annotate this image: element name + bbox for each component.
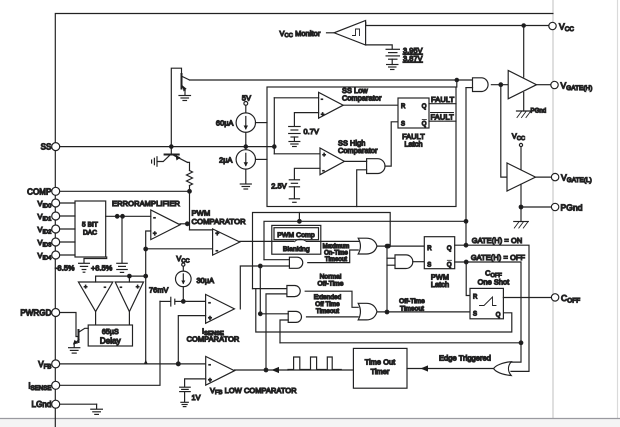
node blanking feedback junction (298, 220, 302, 224)
resistor R1 (187, 171, 193, 186)
pin VID4 (52, 251, 60, 259)
capacitor 76mV offset (174, 299, 176, 304)
wire monitor label stub (327, 32, 335, 34)
wire ISENSE comp output to AND1 (240, 266, 289, 309)
svg-text:Timer: Timer (371, 367, 390, 376)
wire 2uA stub to SS box (256, 158, 268, 160)
OR gate extended off-time (358, 303, 377, 320)
op-amp error amplifier (151, 210, 180, 240)
pin VID3 (52, 238, 60, 246)
ground under 1V (181, 401, 188, 403)
wire one-shot return rail (256, 289, 512, 332)
pin VCC (549, 22, 556, 29)
node AND3 input junction (259, 312, 263, 316)
svg-text:VID2: VID2 (37, 225, 51, 235)
node VFB junction (176, 362, 180, 366)
svg-text:-: - (209, 363, 211, 369)
wire AND-enable riser (465, 88, 467, 246)
page bottom gray rule (0, 418, 620, 420)
wire AND2 output to ext OR (305, 291, 358, 307)
wire SS High output (344, 160, 366, 162)
svg-text:ERRORAMPLIFIER: ERRORAMPLIFIER (112, 199, 181, 208)
svg-text:-: - (323, 168, 325, 174)
svg-text:-: - (216, 249, 218, 255)
svg-text:-: - (120, 285, 122, 291)
battery 3.95V/3.87V reference (386, 48, 399, 50)
wire COMP pin (60, 190, 190, 192)
ground under 3.95V reference (387, 64, 398, 66)
wire comparator outputs into delay (95, 312, 97, 325)
svg-text:+: + (84, 285, 87, 291)
AND gate gate-drive (473, 78, 489, 92)
svg-text:VID0: VID0 (37, 199, 51, 209)
svg-text:60µA: 60µA (216, 119, 234, 128)
page bottom strip tint (0, 419, 620, 427)
ground under Q3 (69, 347, 80, 349)
wire VGATE(H) driver input to VGATE(L) driver (501, 85, 507, 177)
svg-text:VGATE(L): VGATE(L) (561, 173, 592, 185)
page table vertical gray line (552, 0, 554, 427)
wire SS High ref input (294, 168, 320, 179)
svg-text:2µA: 2µA (219, 155, 232, 164)
wire VFB low comparator output to timer (235, 369, 354, 371)
wire SS Low output to FAULT latch R (343, 104, 398, 106)
node driver input junction (499, 83, 503, 87)
wire GATE(H)=ON from latch Q (455, 245, 529, 371)
pin PWRGD (52, 309, 60, 317)
op-amp VFB low comparator (206, 356, 235, 385)
wire rail to AND2 top input (253, 288, 287, 290)
svg-text:VCC Monitor: VCC Monitor (280, 29, 321, 39)
ground under 2uA (240, 183, 251, 185)
svg-text:3.87V: 3.87V (403, 54, 423, 63)
wire AND second input from box bottom (357, 170, 367, 207)
svg-text:COMPARATOR: COMPARATOR (192, 217, 247, 226)
svg-text:Blanking: Blanking (283, 246, 310, 253)
DAC box 5 BIT DAC (75, 201, 106, 257)
wire edge gate to timer with arrow (407, 368, 494, 370)
wire VID3 to DAC (60, 241, 75, 243)
AND gate 2 (normal off-time) (287, 286, 300, 297)
svg-text:VID4: VID4 (37, 251, 51, 261)
wire FAULT latch Qbar output (429, 120, 456, 122)
wire SS Low ref input (294, 113, 318, 126)
svg-text:Latch: Latch (404, 140, 422, 149)
wire VCC into VGATE(H) driver (523, 26, 525, 78)
wire driver to PGnd chassis (523, 93, 525, 112)
transistor Q3 base bar (78, 330, 80, 342)
pin VID2 (52, 225, 60, 233)
svg-text:S: S (427, 262, 431, 268)
wire stub to SS box corner (456, 80, 458, 87)
transistor Q3 emitter with arrow (74, 340, 79, 345)
svg-text:5 BIT: 5 BIT (82, 222, 98, 229)
wire resistor to COMP node (189, 186, 191, 192)
wire VGATE(L) driver to pin (536, 176, 552, 178)
wire AND3 bottom input from off rail (280, 320, 288, 343)
svg-text:Q: Q (422, 104, 427, 110)
wire PWRGD pin to transistor (60, 313, 78, 337)
wire 30uA to ISENSE comp input (182, 287, 184, 302)
svg-text:+: + (321, 112, 324, 118)
page right edge gray line (617, 0, 619, 427)
SS section box (267, 87, 456, 207)
wire SS rail (60, 146, 275, 148)
wire VID0 to DAC (60, 202, 75, 204)
svg-text:-: - (104, 285, 106, 291)
pin ISENSE (52, 381, 60, 389)
svg-text:Q: Q (496, 313, 501, 319)
svg-text:COMPARATOR: COMPARATOR (187, 335, 240, 344)
waveform pulse glyph (288, 357, 341, 370)
buffer VGATE(H) driver (508, 71, 536, 99)
node VFB bus to PWM comp junction (144, 247, 148, 251)
svg-text:Q: Q (447, 246, 452, 252)
node off-time rail end junction (519, 341, 523, 345)
op-amp PWM comparator (213, 229, 240, 255)
svg-text:R: R (401, 104, 406, 110)
hysteresis glyph inside monitor (353, 29, 360, 36)
node VFB low output junction (264, 368, 268, 372)
node gate-on junction (464, 243, 468, 247)
node COMP junction (188, 190, 192, 194)
svg-text:LGnd: LGnd (32, 400, 52, 409)
svg-text:65µS: 65µS (102, 329, 119, 336)
wire VCC rail to pin (366, 23, 549, 26)
wire VID1 to DAC (60, 215, 75, 217)
svg-text:S: S (401, 122, 405, 128)
node S-AND feed junction (385, 244, 389, 248)
wire AND3 output to ext OR (307, 316, 359, 318)
transistor Q2 base from SS rail (170, 147, 172, 155)
wire ISENSE riser (60, 301, 160, 385)
svg-text:FAULT: FAULT (431, 95, 455, 104)
arrow on VFB low output (272, 367, 280, 373)
wire latch-Q feedback rail (264, 221, 466, 259)
wire SS to SS Low + input (274, 97, 318, 99)
pin COFF (551, 294, 558, 301)
buffer VGATE(L) driver (507, 163, 536, 191)
node VFB bus meets VFB pin wire (144, 360, 148, 365)
svg-text:Time Out: Time Out (365, 358, 396, 367)
pin COMP (52, 187, 60, 195)
wire 5V to 60uA source (245, 105, 247, 113)
svg-text:+: + (153, 232, 157, 238)
wire 1V ref to VFB low comparator (185, 379, 206, 387)
op-amp SS High comparator (320, 148, 344, 175)
svg-text:Normal: Normal (320, 274, 342, 281)
wire 2uA to ground (245, 169, 247, 183)
svg-text:VFB: VFB (38, 360, 51, 371)
svg-text:One Shot: One Shot (478, 278, 510, 287)
wire SS riser to comparators (273, 98, 275, 154)
svg-text:PGnd: PGnd (561, 203, 583, 213)
wire one-shot to COFF pin (503, 297, 551, 299)
current source 2uA (236, 150, 255, 169)
svg-text:Off-Time: Off-Time (399, 298, 425, 305)
wire stub rail to blanking rail (298, 213, 300, 222)
svg-text:Extended: Extended (314, 294, 342, 301)
box PWM Comp Blanking (272, 225, 321, 254)
op-amp ISENSE comparator (206, 294, 235, 323)
wire VCC to 30uA (182, 266, 184, 271)
pin VID1 (52, 212, 60, 220)
svg-text:Latch: Latch (431, 280, 449, 289)
battery 1V (180, 386, 191, 388)
node VCC rail junction (522, 24, 525, 27)
svg-text:0.7V: 0.7V (304, 127, 319, 136)
wire -8.5% tap (84, 257, 107, 263)
transistor Q2 left leg to capacitor (158, 156, 170, 162)
svg-text:FAULT: FAULT (431, 113, 455, 122)
svg-text:-: - (321, 97, 323, 103)
wire VFB to ISENSE comp + input (178, 316, 205, 364)
current source 30uA (176, 271, 192, 287)
svg-text:PGnd: PGnd (531, 109, 547, 115)
ground under 0.7V (289, 141, 300, 143)
svg-text:Edge Triggered: Edge Triggered (439, 353, 491, 362)
wire AND1 output to OR input (308, 250, 358, 263)
comparator window left (down triangle) (78, 282, 112, 312)
node rail to OR output junction (387, 244, 391, 248)
transistor Q1 collector (182, 77, 189, 81)
wire Q2 to resistor (188, 162, 190, 170)
pin VFB (52, 360, 60, 368)
wire SS to SS High input (274, 153, 320, 155)
svg-text:+: + (136, 285, 139, 291)
svg-text:+: + (323, 153, 326, 159)
svg-text:Q: Q (447, 262, 452, 268)
svg-text:VID3: VID3 (37, 238, 51, 248)
wire 60uA stub to SS box (256, 122, 268, 124)
wire offset node to comparator (183, 300, 205, 302)
IC outline top border (55, 14, 553, 427)
transistor Q1 emitter with arrow (182, 86, 185, 91)
wire monitor reference (366, 45, 393, 49)
svg-text:Maximum: Maximum (323, 244, 350, 250)
node SS riser junction (273, 145, 276, 148)
wire window comparators to VFB bus (95, 276, 97, 282)
pin VID0 (52, 199, 60, 207)
pin SS (52, 143, 60, 151)
wire error amp out to PWM comparator input (190, 229, 213, 231)
pin VGATE(L) (551, 173, 558, 180)
node VCC terminal VGATE(L) (519, 143, 522, 146)
transistor Q2 emitter with arrow (174, 156, 188, 163)
pin PGnd (551, 203, 558, 210)
svg-text:+: + (208, 316, 212, 322)
AND gate 3 (extended off-time) (288, 311, 301, 322)
wire enable riser to AND input (466, 87, 473, 89)
node window sense junctions (128, 274, 132, 278)
wire max on-time rail (253, 213, 391, 289)
svg-text:Off Time: Off Time (315, 301, 340, 308)
capacitor at Q2 (156, 157, 158, 166)
wire COMP node to error amp output (189, 191, 191, 230)
node AND3 riser top junction (259, 264, 263, 268)
chassis ground at PGnd (514, 221, 529, 223)
reference -8.5% symbol (79, 262, 90, 264)
node PGnd junction (519, 205, 523, 209)
svg-text:Timeout: Timeout (400, 306, 424, 313)
wire error amp output (180, 223, 189, 225)
svg-text:1V: 1V (192, 393, 201, 402)
wire 60uA to SS rail (245, 132, 247, 146)
wire S-AND output to latch (413, 261, 425, 263)
FAULT latch box (398, 98, 429, 128)
svg-text:GATE(H) = OFF: GATE(H) = OFF (471, 253, 526, 262)
svg-text:On-Time: On-Time (324, 251, 348, 257)
op-amp SS Low comparator (319, 92, 344, 118)
node SS/current-source junction (244, 145, 247, 148)
chassis ground PGnd at VGATE(H) (517, 110, 532, 112)
svg-text:R: R (427, 246, 432, 252)
svg-text:Comparator: Comparator (342, 94, 382, 103)
comparator window right (down triangle) (115, 282, 143, 312)
wire SS to transistor base (171, 68, 181, 146)
pin VGATE(H) (551, 81, 558, 88)
one-shot ramp glyph (480, 297, 497, 306)
svg-text:30µA: 30µA (197, 276, 215, 285)
wire GATE(H)=OFF from latch Qbar (455, 262, 521, 362)
svg-text:2.5V: 2.5V (271, 182, 286, 191)
svg-text:+: + (208, 378, 212, 384)
wire Q1 collector to gate-drive AND (190, 79, 473, 81)
node SS/Q1 junction (170, 145, 173, 148)
svg-text:5V: 5V (242, 94, 251, 103)
wire driver to PGnd node (520, 184, 522, 221)
wire AND3 top input riser (260, 266, 288, 314)
wire blanking output to OR gate (307, 240, 360, 242)
svg-text:Comparator: Comparator (338, 146, 378, 155)
svg-text:GATE(H) = ON: GATE(H) = ON (472, 236, 523, 245)
node offset junction (182, 300, 186, 304)
one-shot box COFF (470, 288, 503, 318)
wire LGnd pin to ground (60, 403, 97, 405)
svg-text:SS: SS (41, 143, 52, 152)
op-amp VCC monitor comparator (334, 21, 366, 46)
battery 2.5V (289, 179, 299, 181)
wire VFB pin rail (60, 363, 206, 365)
PWM latch box (424, 237, 454, 269)
svg-text:+8.5%: +8.5% (91, 264, 113, 273)
wire R line junction into S-AND (387, 257, 395, 259)
node DAC output junctions (115, 215, 119, 219)
battery 0.7V (289, 126, 300, 128)
svg-text:COMP: COMP (27, 187, 51, 196)
wire VID2 to DAC (60, 228, 75, 230)
svg-text:-: - (154, 216, 156, 222)
wire off-time bottom rail (280, 342, 521, 344)
AND gate 1 (on-time) (289, 257, 302, 268)
svg-text:Off-Time: Off-Time (317, 281, 343, 288)
svg-text:VFB LOW COMPARATOR: VFB LOW COMPARATOR (210, 386, 297, 396)
svg-text:76mV: 76mV (149, 286, 168, 295)
wire VGATE(H) driver to pin (537, 84, 551, 86)
svg-text:VCC: VCC (512, 132, 525, 143)
svg-text:PWRGD: PWRGD (20, 309, 51, 318)
svg-text:Q: Q (422, 122, 427, 128)
wire SS rail to 2uA (245, 147, 247, 150)
transistor Q1 base bar (181, 74, 183, 89)
wire VFB bus to PWM comparator ramp input (146, 248, 213, 250)
AND gate before PWM latch S (395, 255, 413, 269)
edge trigger gate (494, 362, 512, 376)
wire PWM comparator output to blanking (240, 240, 294, 242)
wire PGnd pin (521, 206, 551, 208)
node 5V terminal (244, 102, 248, 106)
wire ext OR output to one-shot S (377, 311, 470, 313)
ground under Q1 (179, 95, 191, 97)
wire VID4 to DAC (60, 254, 75, 256)
wire gate-off to one-shot R (466, 262, 470, 296)
blanking switch glyph (295, 239, 307, 242)
node error amp output junction (186, 222, 190, 226)
node enable/feedback junction (464, 220, 468, 224)
svg-text:-8.5%: -8.5% (55, 264, 75, 273)
OR gate maximum on-time (358, 238, 377, 254)
wire VFB bus vertical (146, 231, 151, 364)
pin LGnd (52, 400, 60, 408)
wire DAC ref tap down (121, 216, 123, 262)
wire DAC output to error amp (106, 215, 151, 217)
svg-text:+: + (216, 232, 220, 238)
box Time Out Timer (353, 348, 407, 388)
AND gate after SS High (367, 159, 385, 174)
svg-text:R: R (473, 295, 478, 301)
wire VFB-low output to AND2 bottom input (266, 294, 287, 370)
delay box 65uS Delay (88, 325, 132, 346)
node gate-off junction (464, 260, 468, 264)
svg-text:-: - (209, 301, 211, 307)
wire AND output to FAULT latch S (385, 122, 398, 166)
wire latch feedback to AND1 (264, 259, 289, 261)
svg-text:Timeout: Timeout (316, 308, 339, 315)
node collector wire to SS box corner (455, 78, 458, 81)
transistor Q2 base bar (165, 154, 179, 156)
wire FAULT latch Q output (429, 103, 456, 105)
wire VCC into VGATE(L) driver (520, 147, 522, 170)
svg-text:S: S (473, 312, 477, 318)
svg-text:ISENSE: ISENSE (28, 381, 51, 392)
node VCC terminal (182, 263, 185, 266)
reference +8.5% symbol (117, 262, 127, 264)
svg-text:VGATE(H): VGATE(H) (561, 81, 593, 93)
current source 60uA (236, 113, 255, 132)
transistor Q3 collector to delay box (79, 328, 88, 332)
svg-text:DAC: DAC (83, 230, 97, 237)
wire OR output to PWM latch R (377, 245, 424, 247)
svg-text:PWM Comp: PWM Comp (277, 232, 315, 239)
svg-text:VCC: VCC (559, 22, 574, 34)
svg-text:Delay: Delay (100, 337, 121, 346)
svg-text:VID1: VID1 (37, 212, 51, 222)
svg-text:COFF: COFF (561, 293, 580, 305)
wire AND output to VGATE(H) driver (491, 84, 508, 86)
ground at LGnd (91, 408, 103, 410)
